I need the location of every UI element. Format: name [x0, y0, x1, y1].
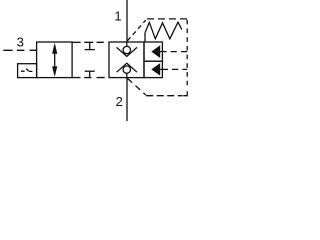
pilot box bottom edge — [146, 95, 182, 97]
switch contact inside solenoid box — [21, 69, 33, 72]
wire: dashed lead to port 3 — [3, 49, 36, 51]
check box K1 (top) — [144, 42, 162, 61]
bottom ball-seat check — [117, 63, 137, 72]
svg-text:1: 1 — [114, 9, 121, 24]
pilot box top edge — [147, 18, 187, 20]
actuator box A1 (proportional actuator) — [37, 42, 73, 78]
wire: bottom link line from actuator corner — [72, 77, 80, 79]
top ball-seat check — [126, 42, 128, 46]
wire: top link line from actuator corner — [72, 41, 81, 43]
pilot line: diagonal from port 2 to pilot box — [127, 78, 146, 95]
double-headed arrow inside actuator — [54, 53, 56, 68]
pilot box bottom-right corner — [183, 91, 187, 95]
pilot line: diagonal from port 1 to spring chamber — [127, 20, 145, 41]
solenoid S1 (small box with switch symbol) — [18, 64, 37, 78]
svg-text:3: 3 — [17, 35, 24, 50]
wire: port 1 — [126, 0, 128, 42]
top pilot cap T1 — [89, 42, 91, 49]
pilot box right edge — [186, 20, 188, 90]
check box K2 (bottom) — [144, 61, 162, 77]
bottom pilot cap T2 — [89, 71, 91, 77]
svg-text:2: 2 — [116, 94, 123, 109]
pilot line: upper branch to check K1 — [171, 51, 188, 53]
pilot line: lower branch to check K2 — [172, 68, 187, 70]
check arrow K2 — [151, 63, 160, 76]
wire: port 2 — [126, 78, 128, 121]
check arrow K1 — [151, 45, 160, 58]
spring — [144, 33, 146, 42]
main valve body U1 — [109, 42, 144, 78]
